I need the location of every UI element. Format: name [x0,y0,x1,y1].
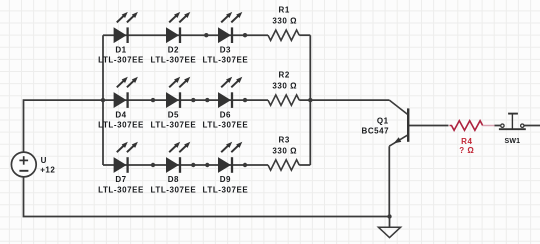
svg-text:LTL-307EE: LTL-307EE [98,56,144,65]
node: emitter/ground junction [387,214,391,218]
svg-text:BC547: BC547 [362,126,390,135]
svg-text:U: U [41,156,47,165]
svg-text:D5: D5 [168,110,179,119]
resistor R2 330 ohm [268,71,299,106]
svg-text:330 Ω: 330 Ω [272,81,297,90]
svg-text:330 Ω: 330 Ω [272,17,297,26]
wire: row1 left segment (top bus to R1) [103,34,268,36]
wire: row2 R2 to transistor collector [299,99,389,101]
node: row3 junction before D9 [205,163,209,167]
svg-text:LTL-307EE: LTL-307EE [151,185,197,194]
wire: R4 to SW1 [495,125,501,127]
svg-text:LTL-307EE: LTL-307EE [98,121,144,130]
svg-text:+12: +12 [40,165,55,174]
node: row3 junction after D9 [243,163,247,167]
node: row2 junction right bus [308,98,312,102]
transistor Q1 BC547 (NPN, mirrored) [362,100,409,146]
wire: left vertical bus [102,35,104,165]
svg-text:D2: D2 [168,45,179,54]
svg-text:LTL-307EE: LTL-307EE [151,56,197,65]
ground symbol [378,217,400,238]
svg-text:D8: D8 [168,175,179,184]
svg-text:LTL-307EE: LTL-307EE [203,121,249,130]
pushbutton switch SW1 [499,114,526,146]
svg-text:SW1: SW1 [505,138,521,145]
LED D6 (LTL-307EE) [203,77,249,130]
LED D3 (LTL-307EE) [203,12,249,65]
svg-text:? Ω: ? Ω [459,146,474,155]
svg-text:R2: R2 [279,71,290,80]
svg-text:Q1: Q1 [377,116,389,125]
node: row1 junction after D2 [204,33,208,37]
svg-text:D7: D7 [115,175,126,184]
svg-text:LTL-307EE: LTL-307EE [151,121,197,130]
node: row2 junction before D6 [205,98,209,102]
node: row2 junction left bus [101,98,105,102]
wire: right vertical bus [309,35,311,165]
wire: row3 left segment [103,164,268,166]
node: row3 junction after D8 [191,163,195,167]
svg-text:LTL-307EE: LTL-307EE [203,185,249,194]
node: row2 junction after D6 [243,98,247,102]
svg-text:R3: R3 [279,136,290,145]
svg-text:R1: R1 [279,6,290,15]
LED D5 (LTL-307EE) [151,77,197,130]
svg-text:D6: D6 [220,110,231,119]
wire: source bottom + bottom return wire [24,177,390,217]
node: row1 junction after D3 [243,33,247,37]
LED D1 (LTL-307EE) [98,12,144,65]
voltage source U +12 [11,152,55,177]
wire: base wire to R4 [409,125,449,127]
wire: row1 R1 to right bus [299,34,310,36]
node: row2 junction after D5 [191,98,195,102]
node: row2 junction after D4 [151,98,155,102]
LED D4 (LTL-307EE) [98,77,144,130]
resistor R3 330 ohm [268,136,299,171]
svg-text:D9: D9 [220,175,231,184]
svg-text:D3: D3 [220,45,231,54]
svg-text:R4: R4 [461,137,472,146]
wire: source top to row2 left segment [24,100,269,152]
svg-text:LTL-307EE: LTL-307EE [203,56,249,65]
LED D7 (LTL-307EE) [98,142,144,195]
wire: row3 R3 to right bus [299,164,310,166]
LED D9 (LTL-307EE) [203,142,249,195]
wire: SW1 to right edge [524,125,540,127]
svg-text:D1: D1 [115,45,126,54]
svg-text:330 Ω: 330 Ω [272,146,297,155]
svg-text:LTL-307EE: LTL-307EE [98,185,144,194]
resistor R1 330 ohm [268,6,299,41]
wire: emitter down wire [388,146,390,216]
resistor R4 ? ohm (highlighted red) [450,121,495,155]
svg-text:D4: D4 [115,110,126,119]
LED D8 (LTL-307EE) [151,142,197,195]
LED D2 (LTL-307EE) [151,12,197,65]
node: row3 junction after D7 [151,163,155,167]
